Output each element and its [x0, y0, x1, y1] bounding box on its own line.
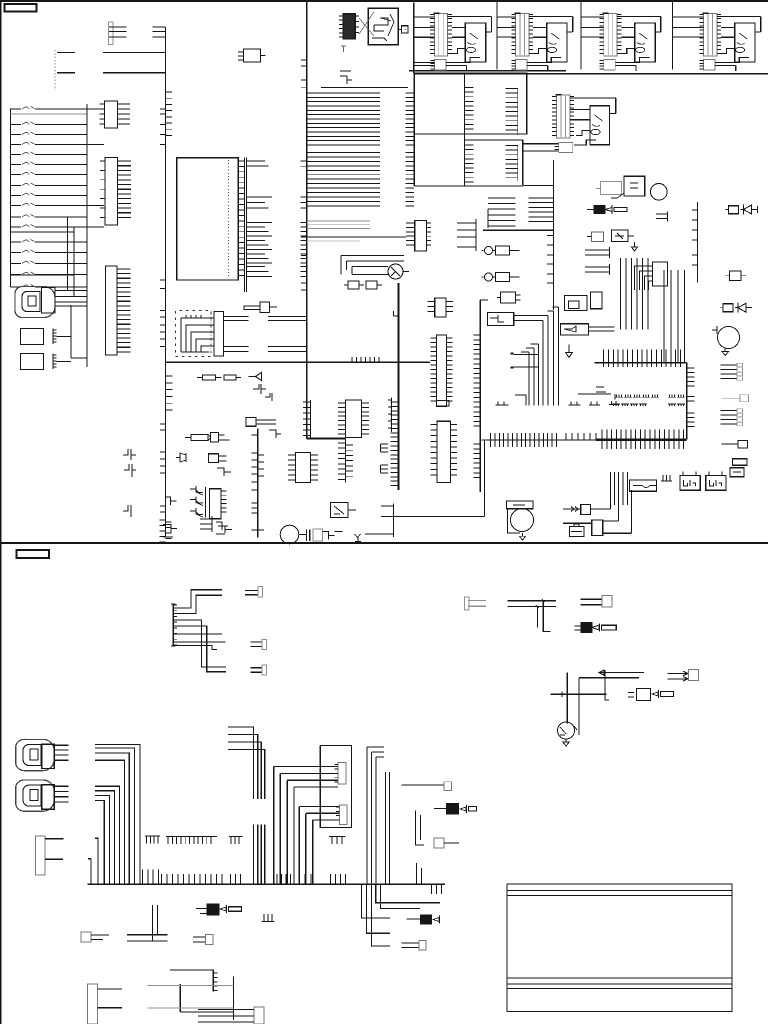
bus right tick group — [143, 870, 159, 885]
net J pin comb upper — [474, 335, 481, 426]
bottom strip comb B — [200, 516, 212, 532]
net H pin comb — [529, 198, 554, 222]
BX2 wires — [589, 327, 615, 331]
capacitor block C1 — [21, 329, 44, 345]
LED indicator LD1 — [485, 247, 493, 255]
module M5 input wires — [570, 110, 590, 120]
hanging comb HC3 — [229, 836, 242, 844]
U8 pin ticks left — [430, 338, 436, 401]
capacitor C5 — [366, 281, 377, 289]
U2 left edge lower — [414, 134, 523, 186]
U2 inner pin comb B upper — [517, 88, 519, 135]
junction crosses — [562, 692, 579, 698]
cluster A connector strip — [172, 604, 174, 646]
mid divider tick comb — [352, 357, 379, 362]
riser quad wires lower — [254, 824, 265, 884]
cluster C wire 2 — [579, 677, 639, 679]
transistor Q1 — [388, 264, 403, 279]
USB connector P1 inner shell — [22, 292, 40, 312]
T1 internal symbols — [372, 14, 394, 41]
right bracket group RG2 — [720, 411, 737, 425]
tick comb on net line A lower — [166, 376, 173, 410]
block right pin ticks upper — [687, 368, 695, 386]
module M2 input wires — [533, 27, 546, 37]
descender wire 2 — [381, 884, 421, 908]
frame block rule 2 — [507, 895, 732, 897]
GL2 cross ticks dense — [491, 433, 557, 447]
LED indicator LD2 — [485, 273, 493, 281]
net H lower ticks — [547, 236, 553, 283]
net I ticks — [692, 210, 698, 265]
module M2 weave wire — [533, 49, 562, 63]
secondary data bus wires — [307, 221, 370, 228]
cluster A wire 6 — [173, 641, 225, 643]
connector CN10a — [193, 937, 206, 942]
tick comb right of net line A top — [166, 92, 173, 135]
tick marks on net line A upper — [160, 53, 166, 145]
module M3 bottom wires — [615, 62, 636, 71]
connector CN11a — [254, 1007, 264, 1024]
U5 pin ticks — [288, 455, 296, 480]
CE2 frame wire — [507, 509, 520, 533]
L wire pair right — [416, 811, 425, 846]
cluster C long wire — [550, 693, 606, 695]
IC U7 — [435, 298, 446, 317]
pin strip of C2 — [52, 354, 54, 370]
long vertical net line A — [165, 27, 167, 537]
electrolytic cap CE1 — [280, 525, 299, 544]
net J pin comb lower — [474, 444, 481, 478]
retention module RM1 — [630, 480, 657, 491]
main ground bus line — [88, 883, 446, 885]
connector J5 — [106, 266, 118, 355]
block right edge — [686, 363, 688, 440]
GL2 up ticks sparse — [566, 433, 602, 440]
chipset block U2 upper box — [414, 73, 526, 134]
node bracket right of J1 — [153, 27, 166, 37]
net D left pin ticks — [301, 161, 307, 276]
U8 pin ticks right — [447, 338, 453, 401]
module M4 IC — [735, 23, 755, 62]
wire T1 to DB1 — [398, 28, 401, 30]
wire y230 — [483, 229, 553, 231]
box XD1 — [581, 504, 591, 514]
tick marks on net line A mid — [160, 280, 166, 347]
bus up tick group 5 — [331, 874, 346, 884]
buzzer LS1 — [176, 453, 186, 462]
module M4 connector strip — [704, 13, 717, 56]
ground symbol GND1 — [355, 517, 394, 542]
USB P3 contact box — [30, 790, 38, 801]
transistor cluster Q3-Q5 — [204, 487, 206, 518]
big cap circle CE2 — [511, 509, 534, 532]
comb sh2 — [262, 914, 275, 921]
damper box DB1 — [402, 26, 409, 33]
riser quad wires — [228, 727, 265, 799]
J6 left pin dots — [210, 314, 212, 353]
vertical trunk U4 — [345, 439, 347, 483]
pin header J9 — [87, 984, 97, 1024]
IC U3 — [415, 221, 427, 251]
gray data wire — [307, 240, 360, 242]
bracket BB3 — [269, 430, 281, 438]
module M4 hook wire — [717, 17, 761, 32]
J9 wires — [98, 989, 123, 1008]
resistor R3 — [224, 375, 236, 380]
nested connector feed 1 — [274, 767, 338, 885]
wire bundle verticals — [621, 258, 649, 329]
module M5 weave wire — [574, 131, 596, 146]
bottom strip bracket C — [218, 526, 232, 533]
small box component XA1 — [244, 49, 261, 62]
left array gray line — [11, 113, 88, 115]
dotted connector J2 — [54, 50, 56, 90]
U2 inner pin comb B lower — [517, 145, 519, 181]
tuft group B — [569, 402, 581, 406]
USB P3 wires — [54, 786, 68, 802]
resistor RT1 — [185, 437, 191, 439]
IC U10 body — [437, 421, 451, 482]
battery BT2 — [706, 476, 726, 491]
bracket comb BC2 — [487, 209, 489, 228]
GL2 right cross ticks — [602, 430, 684, 450]
drop wire 1 — [543, 601, 550, 632]
tall box RB2 — [591, 292, 602, 309]
module M1 input wires — [452, 27, 465, 37]
extra drop wires — [521, 344, 539, 406]
grass bus line GL2 left — [481, 439, 596, 441]
connector CN3a — [250, 668, 262, 673]
wire from J2 lower — [57, 72, 166, 74]
module M5 connector strip — [556, 95, 570, 138]
inductor-diode pair FD2 — [720, 307, 723, 309]
bracket BC4 — [585, 247, 609, 258]
IC U1 right pin ticks — [238, 161, 244, 275]
connector CN5a — [668, 671, 688, 681]
stacked box SB2 — [730, 468, 744, 477]
harness group 1 wires — [95, 745, 140, 885]
single wire above bus — [321, 87, 408, 89]
bracket BC5 — [585, 264, 609, 275]
power bracket PB2 — [265, 393, 272, 401]
wire with pad W2 — [721, 443, 738, 445]
U2 bottom wire extension — [523, 185, 554, 187]
power symbol PS2 — [124, 464, 136, 477]
USB connector P1 contact box — [28, 296, 36, 306]
resistor R2 — [203, 375, 216, 380]
bottom nested wires — [170, 970, 234, 1020]
module M2 IC — [547, 23, 567, 62]
U2 inner pin comb A lower — [465, 145, 474, 182]
hanging comb HC2 — [166, 836, 217, 844]
frame block rule 4 — [507, 983, 732, 985]
USB P1 wires — [55, 291, 87, 307]
U6 pin ticks — [221, 491, 227, 512]
connector CN6a — [338, 762, 346, 784]
connector J3 — [105, 101, 118, 128]
IC U5 body — [296, 453, 311, 483]
box XD3 — [592, 520, 603, 536]
comb ticks on net line E — [391, 402, 399, 486]
long vertical net line D — [306, 1, 308, 439]
USB connector P1 body — [42, 288, 56, 314]
bus down ticks — [432, 884, 442, 894]
box U9 — [437, 401, 450, 407]
L-wire pair — [127, 905, 168, 941]
riser trio wires — [367, 747, 384, 884]
module M1 connector strip — [434, 13, 447, 56]
bottom bracket BB1 — [216, 522, 228, 534]
connector K1 — [343, 14, 355, 39]
resistor RS5 — [407, 918, 421, 920]
descender wire 1 — [376, 884, 440, 902]
USB P3 body — [42, 785, 55, 809]
tuft row A — [615, 395, 685, 398]
hanging comb HC4 — [329, 836, 346, 844]
vline pair bottom — [417, 863, 422, 884]
wires K1 to T1 cross — [359, 12, 374, 36]
wire C1 to bus — [57, 337, 72, 362]
frame block rule 5 — [507, 987, 732, 989]
IC U1 body — [177, 158, 239, 280]
block right pin ticks mid — [687, 397, 695, 402]
module M5 hook wire — [570, 98, 616, 114]
ground arrow GA2 — [566, 344, 573, 357]
wire bundle bottom verticals — [615, 472, 628, 505]
stacked box SB1 — [733, 459, 748, 466]
connector CN1a — [245, 590, 258, 594]
module M1 weave wire — [451, 49, 480, 63]
trunk comb ticks — [338, 443, 346, 479]
module M4 input wires — [721, 27, 734, 37]
module M2 connector strip — [516, 13, 529, 56]
bottom strip bracket group A — [163, 525, 177, 538]
long wire at y516 — [393, 516, 484, 518]
cluster A wire 5 — [173, 633, 222, 635]
sheet left border — [0, 0, 2, 1024]
capacitor C3 — [260, 302, 270, 313]
wires right of J6 upper — [224, 317, 307, 321]
crystal Y1 can — [601, 182, 622, 195]
IC U6 body — [210, 489, 221, 519]
diode D2 — [249, 373, 262, 381]
net D tick marks — [301, 60, 307, 290]
harness single wire 2 — [88, 859, 91, 885]
wires array to connector J3 — [87, 109, 104, 227]
frame block outline — [507, 884, 732, 1012]
J7 fanout wires — [635, 266, 653, 290]
connector J7 — [653, 262, 668, 286]
left array group box — [11, 232, 75, 275]
wire from J2 upper — [57, 52, 166, 54]
box around CN6a CN7a — [320, 746, 351, 828]
connector CN4a — [581, 599, 603, 605]
bracket mark BM1 — [596, 387, 606, 392]
module M4 weave wire — [721, 49, 750, 63]
module M4 top pin — [703, 12, 709, 14]
module M1 hook wire — [448, 17, 492, 32]
U10 pin ticks — [431, 425, 438, 475]
transistor Q2 with body box — [331, 503, 349, 518]
block right pin ticks lower — [687, 413, 695, 427]
tuft row B — [612, 404, 685, 406]
resistor RS1 — [575, 626, 581, 630]
array tap wire 2 — [73, 227, 75, 297]
row2 wire — [563, 522, 592, 524]
junction dots — [536, 599, 545, 608]
module M5 IC — [590, 106, 610, 145]
net A bottom hook — [166, 497, 177, 505]
cluster C arrow wire — [599, 670, 644, 675]
tiny mark under K1 — [341, 46, 346, 52]
cap CE1 plates — [299, 530, 310, 542]
left array switch lines — [11, 109, 88, 287]
box XB4 — [209, 454, 219, 463]
comb sh1 — [661, 475, 672, 481]
power symbol PS3 — [123, 505, 131, 517]
vertical net line I — [697, 202, 699, 283]
U4 pin ticks — [338, 403, 346, 434]
tuft group A — [496, 402, 509, 406]
USB P2 body — [42, 744, 55, 768]
module M1 bottom wires — [446, 62, 467, 71]
cluster C vert 2 — [578, 678, 580, 735]
module M5 lower connector — [559, 143, 573, 153]
bottom gray wires — [147, 986, 233, 1008]
relay can RL1 — [507, 501, 533, 509]
connector CN1 left array rail — [10, 109, 12, 288]
vertical net line H — [552, 160, 554, 310]
relay box RB1 — [564, 296, 587, 311]
sheet 1 top border — [0, 0, 768, 2]
frame block rule 3 — [507, 977, 732, 979]
module M3 hook wire — [617, 17, 661, 32]
resistor R1 — [244, 306, 260, 310]
mid divider wire — [166, 361, 431, 363]
IC U1 dotted pin column — [227, 160, 229, 278]
comb above U4 — [310, 400, 312, 439]
module separator net 1 — [496, 1, 498, 70]
connector J1 pins — [109, 22, 114, 45]
grass bus line GL2 right thick — [596, 439, 687, 441]
harness group 2 wires — [95, 786, 120, 884]
connector CN8a — [402, 784, 445, 786]
transistor Q6 — [718, 327, 740, 349]
box XB5 — [246, 418, 256, 427]
vertical wire F — [392, 504, 394, 538]
cluster A wire 7 — [173, 646, 217, 650]
small comb left of E — [391, 398, 393, 433]
wire with pad W1 — [721, 397, 740, 399]
connector J4 — [105, 158, 118, 226]
nested drop wires — [543, 307, 559, 406]
osc wire down — [611, 193, 624, 198]
USB P2 contact box — [30, 749, 38, 760]
nested wires into J6 — [181, 318, 214, 352]
module M2 bottom wires — [527, 62, 548, 71]
bus up tick group 2 — [230, 874, 240, 884]
module M4 lower connector — [704, 59, 716, 70]
module M1 IC — [465, 23, 485, 62]
cluster A wire 1 — [173, 590, 222, 608]
tuft group D — [609, 401, 618, 405]
bent wire pair BW1 — [514, 355, 539, 375]
IC U8 body — [436, 335, 446, 406]
battery BT1 — [680, 476, 700, 491]
frame block rule 1 — [507, 890, 732, 892]
thick vertical net line E — [397, 283, 399, 490]
net line A bottom comb — [160, 520, 166, 542]
row2 wires right — [603, 472, 632, 533]
module M3 IC — [635, 23, 655, 62]
component box XB1 — [313, 529, 323, 541]
sheet 2 title block — [17, 550, 50, 558]
row1 wire right — [591, 472, 611, 509]
net E stub above — [394, 311, 399, 316]
component CN9a — [81, 932, 91, 942]
wire XB1 — [323, 532, 343, 540]
memory bus rail pair — [409, 70, 566, 72]
cluster A wire 2 — [173, 595, 222, 613]
net tie TP1 — [381, 444, 389, 452]
capacitor block C2 — [21, 354, 44, 370]
vertical feed line B — [86, 104, 88, 367]
boxed component BX2 — [561, 324, 589, 335]
resistor RS3 — [196, 909, 207, 914]
oscillator box Y2 — [624, 176, 645, 196]
resistor network RN1 — [587, 209, 594, 211]
diode wire row1 — [563, 507, 581, 512]
wire Q1 to right — [352, 272, 409, 275]
vertical wire G — [483, 440, 485, 517]
USB P2 wires — [54, 745, 68, 760]
USB connector P3 outline — [16, 780, 55, 811]
connector CN7a — [340, 805, 347, 825]
bottom connector ticks — [213, 973, 217, 991]
array tap wire 1 — [67, 217, 69, 291]
module separator net 2 — [580, 1, 582, 70]
drop bend wire — [515, 395, 526, 406]
bracket nets right of U3 — [457, 219, 476, 251]
boxed component BX1 — [488, 313, 514, 326]
vertical trunk V4 — [413, 3, 415, 73]
module M5 top pin — [555, 94, 561, 96]
USB connector P2 outline — [16, 739, 55, 770]
nested wires to transistor Q1 — [341, 256, 404, 267]
tick marks net line A bottom — [160, 424, 166, 512]
vertical net line J — [480, 300, 488, 492]
descender wire 3 — [362, 884, 391, 918]
connector CN12a — [402, 943, 420, 948]
resistor RS2 — [628, 692, 634, 697]
connector J6 — [214, 312, 224, 357]
module feed wires from V4 — [414, 17, 435, 66]
bracket above bus — [340, 71, 352, 84]
bus up tick group 1 — [162, 874, 223, 884]
zener circuit Z1 — [592, 232, 604, 242]
tuft group C — [589, 402, 600, 406]
oscillator circle — [651, 184, 668, 201]
module separator net 3 — [671, 1, 673, 70]
module M3 top pin — [603, 12, 609, 14]
U2 inner pin comb A upper — [465, 88, 474, 129]
right bracket group RG1 — [720, 365, 737, 379]
module M1 lower connector — [434, 59, 446, 70]
inductor-diode pair FD1 — [726, 209, 729, 211]
bracket BC3 — [656, 212, 667, 222]
U2 lower box right — [465, 140, 523, 185]
dash-dot box around J6 — [176, 311, 212, 357]
